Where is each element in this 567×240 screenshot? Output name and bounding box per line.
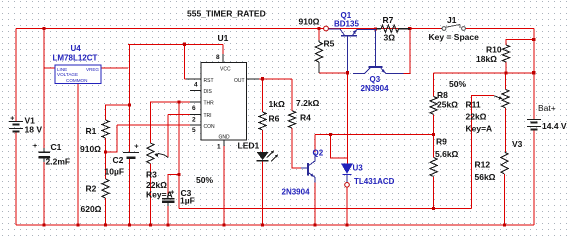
wire TRI to R3 wiper — [167, 115, 169, 158]
svg-text:2: 2 — [192, 117, 196, 124]
potentiometer R11 — [502, 89, 509, 107]
wire C2 bottom lead — [129, 158, 131, 225]
resistor R4 — [288, 111, 295, 128]
svg-text:18 V: 18 V — [25, 125, 43, 135]
svg-text:Q2: Q2 — [313, 149, 324, 158]
svg-text:18kΩ: 18kΩ — [476, 54, 497, 64]
svg-text:1µF: 1µF — [180, 196, 195, 206]
wire OUT to R6/R4 — [247, 78, 293, 80]
junction ground bus / Q2 emitter — [314, 223, 317, 226]
wire V3 top lead from top bus — [533, 29, 535, 120]
pin stub VCC 8 — [222, 54, 224, 63]
wire R4 bottom to Q2 base — [292, 128, 301, 168]
svg-text:+: + — [170, 190, 174, 197]
junction R9 / feedback rail — [432, 207, 435, 210]
wire Q1 base node down to U3 — [347, 73, 349, 164]
capacitor C3 — [167, 195, 169, 199]
pin stub CON 5 — [190, 124, 201, 126]
svg-text:R7: R7 — [383, 15, 394, 25]
junction feedback riser / C3 — [177, 173, 180, 176]
resistor R2 — [102, 179, 109, 198]
wire R6 top lead — [262, 79, 264, 112]
shunt regulator U3 TL431ACD — [342, 164, 352, 173]
wire R6 to LED — [262, 130, 264, 152]
svg-text:25kΩ: 25kΩ — [437, 100, 458, 110]
pin stub OUT — [247, 78, 259, 80]
svg-text:U3: U3 — [353, 164, 364, 173]
svg-text:1: 1 — [217, 144, 221, 151]
wire 12V rail riser x=129.5 down to C2 — [129, 44, 131, 152]
svg-text:R11: R11 — [466, 100, 481, 110]
pin stub RST 4 — [186, 78, 201, 80]
svg-text:J1: J1 — [447, 15, 457, 25]
svg-text:22kΩ: 22kΩ — [466, 112, 487, 122]
resistor R6 — [259, 112, 266, 130]
junction right rail / R10-R11 — [504, 71, 507, 74]
svg-text:R3: R3 — [146, 170, 157, 180]
junction ground bus / LED1 — [261, 223, 264, 226]
svg-text:+: + — [33, 143, 37, 150]
wire top bus right of J1 — [466, 28, 534, 30]
svg-text:5.6kΩ: 5.6kΩ — [435, 149, 459, 159]
svg-text:R2: R2 — [86, 184, 97, 194]
wire THR feedback riser x=179 — [178, 102, 180, 209]
junction ground bus / C1 — [42, 223, 45, 226]
svg-text:2.2mF: 2.2mF — [46, 157, 71, 167]
svg-text:R8: R8 — [437, 90, 448, 100]
potentiometer R8 — [430, 97, 437, 115]
pin stub DIS — [190, 90, 201, 92]
voltage regulator U4 LM78L12CT — [55, 65, 101, 84]
svg-text:LM78L12CT: LM78L12CT — [53, 54, 98, 63]
svg-text:V3: V3 — [512, 139, 523, 149]
wire VCC pin drop — [222, 44, 224, 54]
svg-text:6: 6 — [192, 105, 196, 112]
IC U1 555 timer box — [201, 63, 247, 141]
wire R1 bottom to divider node — [105, 138, 107, 152]
junction ground bus / 555 GND — [222, 223, 225, 226]
svg-text:14.4 V: 14.4 V — [542, 121, 567, 131]
wire R3 top riser — [150, 102, 201, 143]
svg-text:4: 4 — [194, 82, 198, 89]
junction 12V rail / R1 — [128, 103, 131, 106]
junction ground bus / U3 anode — [345, 223, 348, 226]
wire R10 bottom lead — [505, 62, 507, 73]
pin stub TRI 2 — [190, 114, 201, 116]
wire R11 wiper riser — [472, 96, 495, 209]
svg-text:50%: 50% — [196, 175, 213, 185]
wire Q1 base drop — [347, 36, 349, 73]
junction ground bus / U4 common — [76, 223, 79, 226]
wire right rail y=73 — [434, 72, 534, 74]
junction ground bus / C2 — [128, 223, 131, 226]
svg-text:U4: U4 — [71, 44, 82, 53]
wire Q2 collector riser — [314, 135, 316, 153]
svg-text:2N3904: 2N3904 — [361, 84, 390, 93]
svg-text:COMMON: COMMON — [66, 78, 87, 83]
wire 555 GND pin to bus — [223, 146, 225, 225]
wire R8 top lead — [433, 73, 435, 97]
svg-text:620Ω: 620Ω — [81, 204, 102, 214]
wire Q2 collector net to R9 — [315, 134, 434, 136]
svg-text:CON: CON — [204, 124, 216, 130]
wire V3 bottom lead — [533, 130, 535, 226]
junction ground bus / R2 — [104, 223, 107, 226]
junction top bus / R5 — [317, 27, 320, 30]
wire TRI net to pin 2 — [168, 114, 201, 116]
wire U3 ref jog — [330, 135, 347, 159]
wire R4 top lead — [291, 79, 293, 111]
svg-text:TL431ACD: TL431ACD — [354, 177, 395, 186]
junction OUT / R6 / R4 — [261, 77, 264, 80]
capacitor C1 — [43, 148, 45, 152]
svg-text:1kΩ: 1kΩ — [269, 99, 285, 109]
svg-text:3Ω: 3Ω — [384, 33, 396, 43]
svg-text:Key=A: Key=A — [146, 190, 173, 200]
battery V3 — [527, 119, 541, 121]
wire R9 top lead — [433, 135, 435, 158]
wire divider node riser to CON — [106, 125, 118, 152]
resistor R12 — [501, 152, 508, 174]
pin stub GND 1 — [223, 140, 225, 146]
transistor Q1 BD135 — [328, 28, 340, 30]
svg-text:50%: 50% — [449, 79, 466, 89]
wire U4 input drop at x=44 — [43, 29, 45, 69]
svg-text:+: + — [10, 116, 14, 123]
pin stub THR 6 — [190, 101, 201, 103]
junction ground bus / C3 — [166, 223, 169, 226]
resistor R9 — [430, 158, 437, 177]
svg-text:LED1: LED1 — [238, 141, 260, 151]
wire U4 VREG output — [101, 67, 128, 69]
svg-text:56kΩ: 56kΩ — [475, 172, 496, 182]
svg-text:Key=A: Key=A — [466, 124, 493, 134]
svg-text:C2: C2 — [113, 155, 124, 165]
svg-text:R12: R12 — [475, 160, 491, 170]
battery V1 — [9, 121, 23, 123]
junction right rail / V3 rail — [532, 71, 535, 74]
transistor Q3 2N3904 — [375, 29, 377, 67]
svg-text:910Ω: 910Ω — [80, 144, 101, 154]
resistor R1 — [102, 120, 109, 138]
junction top bus / U4 input — [42, 27, 45, 30]
svg-text:Q3: Q3 — [370, 75, 381, 84]
wire LED cathode to bus — [262, 162, 264, 226]
junction THR / feedback riser — [177, 100, 180, 103]
svg-text:+: + — [135, 143, 139, 150]
svg-text:10µF: 10µF — [105, 167, 125, 177]
wire U4 COMMON to ground bus — [77, 84, 79, 226]
svg-text:OUT: OUT — [234, 78, 245, 84]
wire U3 anode to bus — [346, 187, 348, 225]
wire R12 bottom lead — [504, 174, 506, 225]
svg-text:Key = Space: Key = Space — [429, 32, 480, 42]
svg-text:Bat+: Bat+ — [538, 103, 556, 113]
wire R1 top jog — [106, 105, 130, 120]
wire R5 bottom to Q1 base node — [319, 72, 348, 74]
svg-text:R9: R9 — [436, 137, 447, 147]
junction collector net / U3 ref — [329, 133, 332, 136]
junction Q1 base / R5 / Q3 collector / U3 — [346, 71, 349, 74]
wire R8 bottom lead — [433, 114, 435, 134]
junction Q3 base / R7 left — [374, 27, 377, 30]
wire feedback rail y=208.5 — [179, 208, 472, 210]
capacitor C2 — [123, 151, 139, 153]
svg-text:BD135: BD135 — [334, 20, 359, 29]
wire R10 top jog — [506, 40, 534, 45]
wire V1 bottom lead — [15, 132, 17, 226]
wire R11 to R12 — [505, 108, 507, 152]
svg-text:THR: THR — [204, 101, 215, 107]
svg-text:910Ω: 910Ω — [299, 17, 320, 27]
wire RST drop x=184.4 — [183, 44, 185, 79]
wire R2 top lead — [105, 152, 107, 179]
junction R1-R2 divider — [104, 150, 107, 153]
junction VCC rail / RST — [183, 43, 186, 46]
svg-text:TRI: TRI — [204, 113, 212, 119]
svg-text:555_TIMER_RATED: 555_TIMER_RATED — [187, 9, 266, 19]
wire C1 bottom lead — [43, 158, 45, 225]
svg-text:R4: R4 — [300, 113, 311, 123]
svg-text:R10: R10 — [486, 45, 502, 55]
wire CON net to pin 5 — [117, 124, 201, 126]
svg-text:R6: R6 — [269, 114, 280, 124]
wire bottom bus — [16, 224, 534, 226]
svg-text:2N3904: 2N3904 — [282, 188, 311, 197]
svg-text:R1: R1 — [86, 126, 97, 136]
wire C3 top jog — [168, 175, 179, 199]
svg-text:7.2kΩ: 7.2kΩ — [296, 98, 320, 108]
resistor R5 — [315, 42, 322, 62]
wire R10/R11 link — [505, 73, 507, 89]
resistor R10 — [502, 45, 509, 62]
potentiometer R3 — [147, 143, 154, 164]
wire R5 top lead — [318, 29, 320, 41]
svg-text:8: 8 — [216, 54, 220, 61]
wire C3 bottom lead — [167, 202, 169, 226]
wire RST pin stub — [184, 78, 190, 80]
junction ground bus / R12 — [503, 223, 506, 226]
wire U4 LINE pin stub — [44, 67, 55, 69]
wire top bus left of J1 — [16, 28, 442, 30]
svg-text:VCC: VCC — [220, 67, 231, 73]
junction R10 top / V3 rail — [532, 38, 535, 41]
wire V1 top lead — [15, 29, 17, 122]
input connector circle — [324, 26, 329, 31]
wire R9 bottom lead — [433, 177, 435, 209]
junction collector net / R8 / R9 — [432, 133, 435, 136]
junction R7 right / Q3 emitter — [408, 27, 411, 30]
svg-text:DIS: DIS — [204, 89, 213, 95]
svg-text:GND: GND — [219, 135, 231, 141]
svg-text:RST: RST — [204, 78, 214, 84]
wire R3 bottom lead — [149, 164, 151, 226]
wire R2 bottom lead — [105, 198, 107, 225]
wire Q3 emitter to R7 right node — [403, 29, 410, 74]
junction ground bus / R3 — [149, 223, 152, 226]
svg-text:U1: U1 — [218, 33, 229, 43]
svg-text:R5: R5 — [324, 39, 335, 49]
svg-text:VOLTAGE: VOLTAGE — [57, 72, 78, 77]
svg-text:C1: C1 — [51, 142, 62, 152]
svg-text:5: 5 — [192, 127, 196, 134]
transistor Q2 2N3904 — [301, 167, 308, 169]
wire 12V rail to 555 VCC — [128, 43, 223, 45]
wire Q2 emitter to bus — [314, 182, 316, 225]
svg-text:VREG: VREG — [86, 67, 99, 72]
wire C1 top lead — [43, 68, 45, 152]
svg-text:22kΩ: 22kΩ — [146, 180, 167, 190]
resistor R7 — [381, 25, 399, 32]
